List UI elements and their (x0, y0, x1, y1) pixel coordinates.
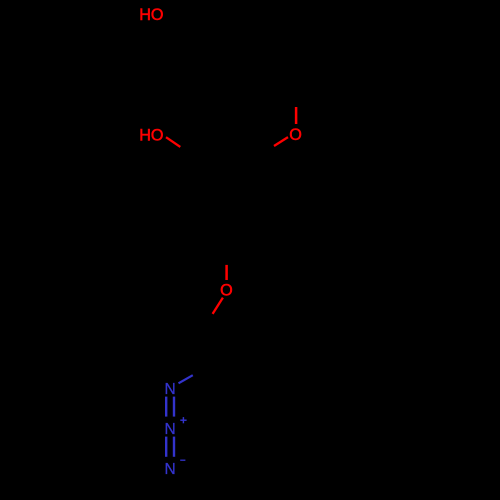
wire: bond from top hydroxyl O to CH2 (carbon half, invisible) (163, 18, 296, 375)
wire: oxygen half of methoxy C-O ring bond (274, 137, 288, 146)
wire: N1=N2 double bond line right (173, 397, 175, 417)
node minus charge sign on N3 (180, 459, 185, 461)
wire: N1=N2 double bond line left (165, 397, 167, 417)
wire: carbon half of CH2-N bond (193, 363, 216, 375)
svg-text:O: O (220, 282, 233, 300)
wire: CH2-CH2 bond of hydroxyethyl chain (200, 40, 202, 92)
wire: carbon half of methoxy C-O ring bond (252, 146, 274, 158)
svg-text:HO: HO (139, 6, 163, 24)
wire: nitrogen half of CH2-N bond (179, 375, 193, 383)
svg-text:HO: HO (139, 126, 163, 144)
wire: CH2-CH2 bond of azidoethyl chain (201, 335, 216, 363)
wire: carbon half of phenol C-O bond (180, 147, 202, 160)
svg-text:N: N (164, 421, 175, 438)
wire: oxygen half of phenol C-O bond (166, 137, 180, 147)
svg-text:O: O (289, 126, 302, 144)
wire: N2=N3 double bond line left (165, 437, 167, 457)
svg-text:N: N (164, 381, 175, 398)
wire: carbon half of ring C-O (bottom ether) (226, 240, 228, 265)
wire: N2=N3 double bond line right (173, 437, 175, 457)
wire: carbon half of ether O-CH2 bond (201, 314, 213, 335)
node plus charge sign on N2 (180, 417, 186, 423)
wire: oxygen half of methoxy O-CH3 bond (295, 107, 298, 124)
wire: oxygen half of O-CH2 bond (213, 298, 223, 314)
wire: oxygen half of ring C-O bond (vertical stub) (225, 265, 228, 280)
wire: methoxy O-CH3 bond carbon half (295, 82, 297, 107)
benzene ring (carbon, invisible on black) (177, 158, 277, 245)
svg-text:N: N (164, 461, 175, 478)
wire: CH2 to ring bond (201, 92, 227, 133)
